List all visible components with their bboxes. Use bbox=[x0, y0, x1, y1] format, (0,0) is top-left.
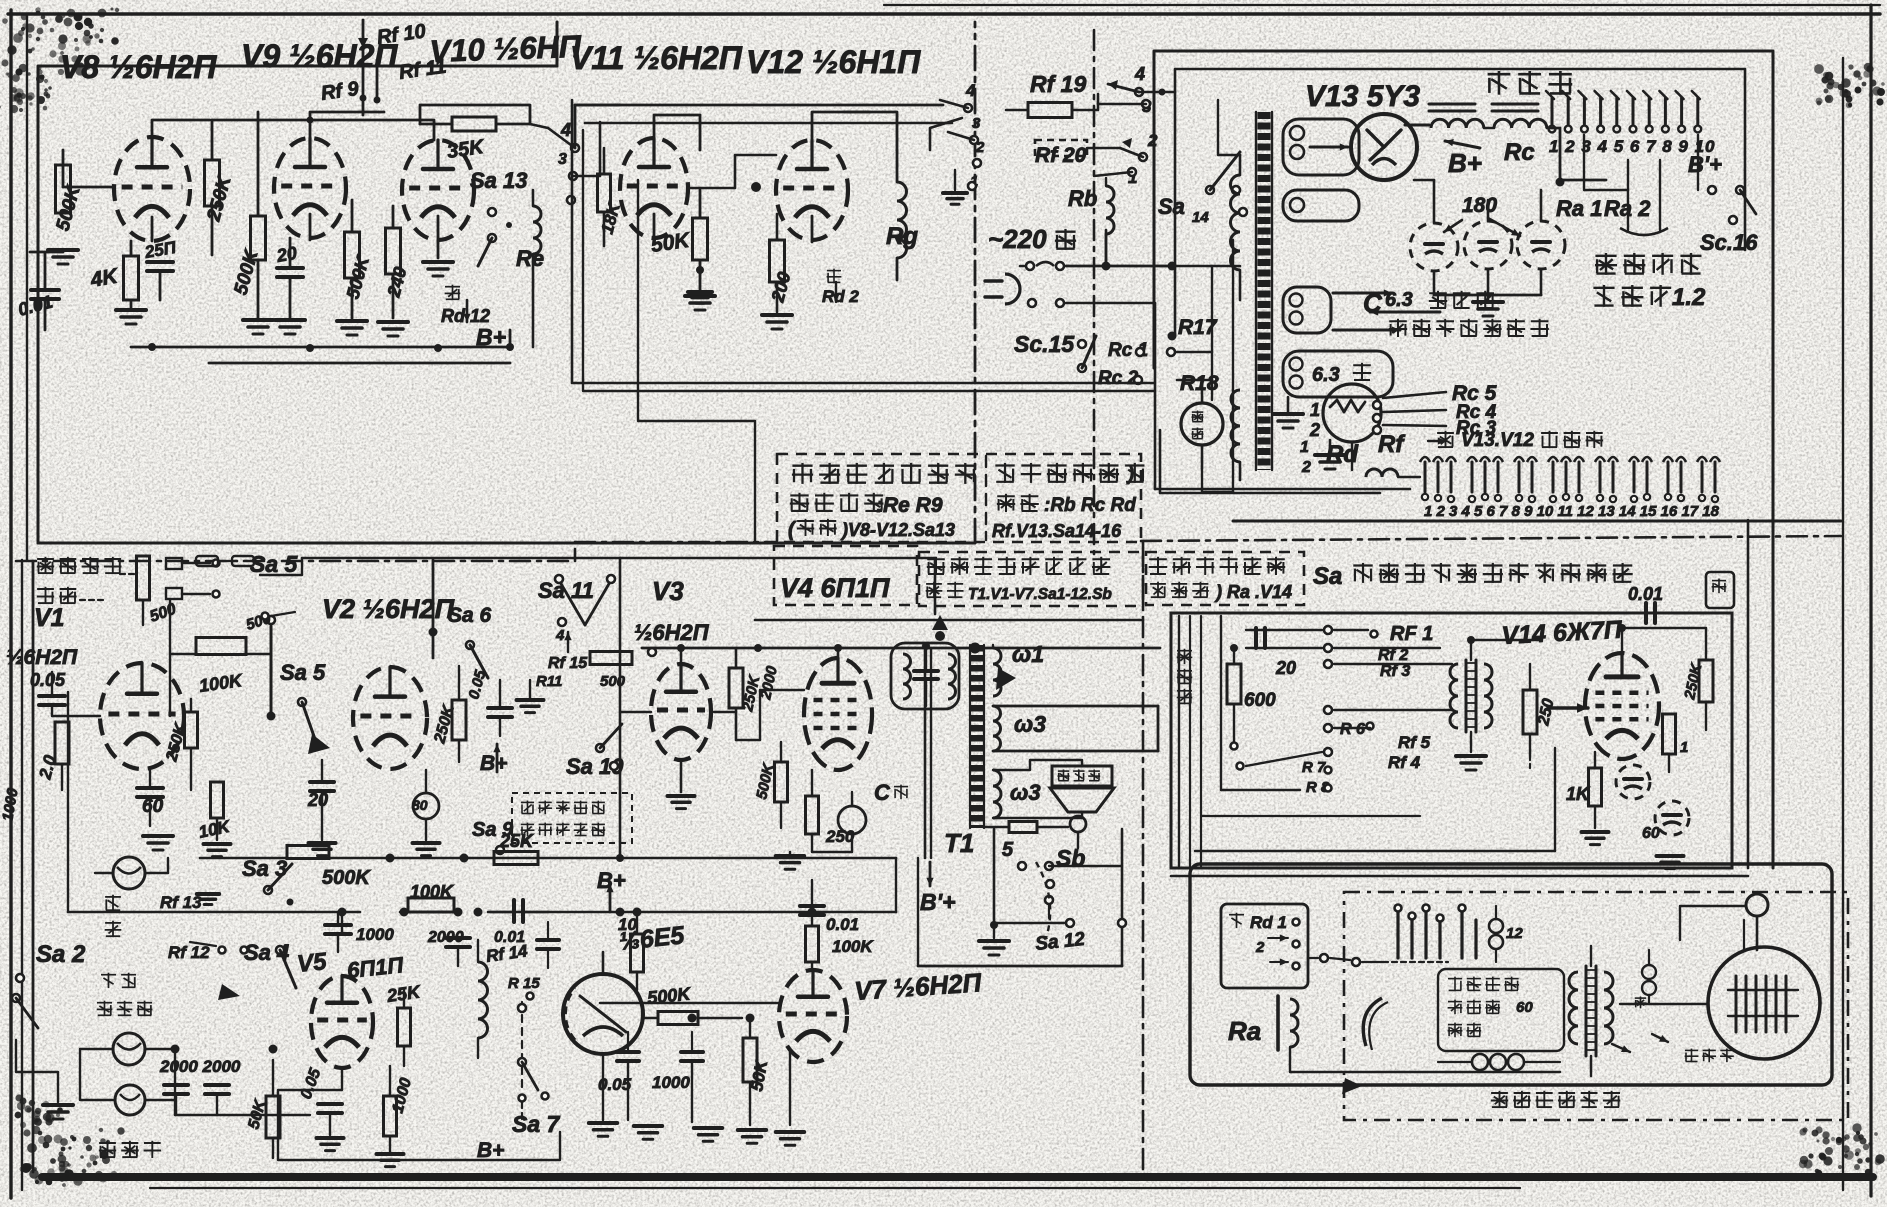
capacitor circle (V4) bbox=[838, 806, 866, 834]
ground (phone transformer) bbox=[1456, 754, 1486, 758]
connector plug pair bbox=[196, 556, 218, 566]
wire input cap bbox=[44, 252, 47, 290]
tube V1 bbox=[100, 663, 184, 769]
ground (V8 cathode) bbox=[130, 300, 133, 308]
ground (500K V9) bbox=[243, 318, 273, 322]
label 区)内有Ra V14 bbox=[1150, 583, 1166, 585]
wire phone mid rail bbox=[1201, 815, 1420, 817]
svg-text:Rd 1: Rd 1 bbox=[1250, 913, 1287, 932]
corner blob top-left bbox=[67, 9, 76, 18]
motor circle 马达 bbox=[1181, 403, 1223, 445]
resistor Rf10 leads bbox=[362, 50, 365, 115]
tube V6 (6E5 eye) bbox=[563, 974, 643, 1054]
capacitor 0.01 (bus) bbox=[512, 900, 516, 922]
ground (V10 cathode) bbox=[437, 240, 440, 258]
svg-text:Rf 4: Rf 4 bbox=[1388, 753, 1421, 772]
svg-text:80: 80 bbox=[412, 797, 428, 813]
capacitor 20 (V9 cathode) bbox=[277, 266, 303, 270]
electrolytic capacitor 1 bbox=[1410, 223, 1458, 271]
receiver resistor bbox=[1648, 995, 1650, 1004]
power transformer primary coil bbox=[1231, 175, 1241, 270]
wire V4 plate bbox=[837, 648, 840, 658]
wire V8 plate top bbox=[152, 120, 210, 137]
wire 220 to transformer bbox=[1105, 230, 1108, 266]
svg-text:) Ra .V14: ) Ra .V14 bbox=[1214, 582, 1292, 602]
corner blob top-right bbox=[1858, 76, 1862, 80]
svg-text:1.2: 1.2 bbox=[1672, 284, 1706, 311]
tube V7 bbox=[779, 970, 847, 1062]
ground (V1 cathode) bbox=[143, 834, 173, 838]
svg-text:1: 1 bbox=[1310, 400, 1320, 420]
svg-text:2: 2 bbox=[1309, 420, 1320, 440]
frame telephone amp box bbox=[1171, 613, 1732, 868]
wire bus y105 bbox=[575, 104, 943, 107]
resistor 240 (V10 cathode) bbox=[386, 228, 401, 274]
resistor 500K (V3) bbox=[775, 762, 788, 802]
wires Rc right bbox=[1177, 351, 1212, 354]
resistor 500K (V6) bbox=[658, 1012, 698, 1025]
label 部份内有:ReR9 bbox=[790, 494, 808, 496]
svg-text:V12 ½6Н1П: V12 ½6Н1П bbox=[746, 44, 921, 80]
ground (V3 cathode) bbox=[680, 760, 683, 792]
label 1000 2000 caps (V5 row) bbox=[537, 938, 559, 942]
wire long y383 bbox=[572, 100, 996, 383]
wire transformer top to frame bbox=[1264, 90, 1300, 112]
ground (20 cap) bbox=[275, 318, 305, 322]
svg-text:1K: 1K bbox=[1566, 784, 1591, 804]
wire pins to Ra1Ra2 bbox=[1584, 135, 1628, 190]
svg-text:B+: B+ bbox=[480, 752, 507, 775]
svg-text:1000: 1000 bbox=[652, 1073, 690, 1092]
svg-text:Rf 3: Rf 3 bbox=[1380, 663, 1410, 680]
resistor 1000 (V5) bbox=[384, 1096, 397, 1136]
svg-text:R 15: R 15 bbox=[508, 975, 540, 992]
annotation box auto-switch (dashed) bbox=[777, 454, 1141, 542]
annotation box 手柄按下 bbox=[1438, 969, 1564, 1051]
resistor 500K (V10 grid) bbox=[345, 232, 360, 278]
terminal pin row 1-10 bbox=[1551, 98, 1554, 124]
svg-text:): ) bbox=[1126, 464, 1134, 484]
brace under Ra bbox=[1620, 228, 1668, 235]
wire vertical x68 bbox=[52, 648, 68, 912]
tube V4 (pentode) bbox=[804, 658, 872, 770]
svg-text:V4 6П1П: V4 6П1П bbox=[780, 573, 890, 603]
svg-text:Sa 2: Sa 2 bbox=[36, 941, 86, 968]
wire T1 bottom to right bbox=[917, 858, 919, 966]
terminal circles (phone input) bbox=[1324, 626, 1332, 634]
svg-text:Rc: Rc bbox=[1504, 139, 1535, 166]
svg-text:Rf 2: Rf 2 bbox=[1378, 647, 1408, 664]
heater winding 2 bbox=[1283, 351, 1393, 397]
svg-text:½6Н2П: ½6Н2П bbox=[6, 646, 78, 669]
electrolytic (V14 screen) bbox=[1655, 801, 1689, 835]
wire power left vertical bbox=[1232, 240, 1234, 492]
svg-text:Sa 6: Sa 6 bbox=[448, 604, 492, 627]
wire long y391 bbox=[583, 130, 996, 391]
svg-text:)V8-V12.Sa13: )V8-V12.Sa13 bbox=[840, 520, 955, 540]
junction dot 500K rail bbox=[460, 854, 469, 863]
resistor 50K (V7) bbox=[743, 1038, 757, 1082]
jack symbols bbox=[166, 558, 182, 569]
ground (V14 screen) bbox=[1657, 854, 1684, 858]
wire choke to Rc bbox=[1547, 128, 1560, 180]
ground (V4) bbox=[776, 854, 804, 858]
label 至Rd2 (V12) bbox=[827, 270, 841, 272]
pickup head 3 bbox=[115, 1085, 145, 1115]
svg-text:12: 12 bbox=[1506, 925, 1523, 942]
phone transformer core bbox=[1465, 660, 1468, 732]
handset big circle bbox=[1708, 947, 1820, 1059]
tube V14 (pentode) bbox=[1585, 653, 1659, 759]
svg-text:Rf 13: Rf 13 bbox=[160, 893, 202, 912]
connector comb bottom bbox=[1424, 462, 1427, 492]
coil (Sb) bbox=[1070, 816, 1086, 832]
svg-text:Rf 5: Rf 5 bbox=[1398, 733, 1431, 752]
power transformer core bbox=[1258, 112, 1271, 470]
electrolytic capacitor 2 bbox=[1464, 221, 1512, 269]
wires Rd to Rc labels bbox=[1383, 392, 1446, 398]
resistor 1K (V14 cathode) bbox=[1589, 768, 1602, 806]
svg-text:2: 2 bbox=[1301, 459, 1311, 476]
svg-text:B+: B+ bbox=[477, 1139, 504, 1162]
resistor small (Sb) bbox=[1009, 822, 1037, 833]
svg-text:R18: R18 bbox=[1180, 372, 1219, 395]
resistor screen (V14) bbox=[1663, 714, 1676, 754]
svg-text:60: 60 bbox=[1642, 825, 1660, 842]
resistor 100K (V7) bbox=[806, 926, 819, 962]
svg-text:R 7: R 7 bbox=[1302, 759, 1326, 776]
wire input box bbox=[260, 558, 302, 575]
coil below 手柄 box bbox=[1472, 1054, 1488, 1070]
electrolytic (V14 cathode) bbox=[1616, 765, 1650, 799]
wire switch bank to V11 bbox=[575, 105, 620, 148]
capacitor 0.01 (V7 grid) bbox=[800, 904, 824, 908]
wire bus y363 bbox=[209, 362, 510, 365]
divider chain line horizontal left bbox=[16, 560, 575, 563]
svg-text:600: 600 bbox=[1244, 690, 1276, 711]
rheostat Rd circle bbox=[1323, 384, 1381, 442]
label 手柄按下 bbox=[1448, 978, 1462, 980]
svg-text:RF 1: RF 1 bbox=[1390, 623, 1433, 645]
svg-text:180: 180 bbox=[1462, 194, 1497, 217]
svg-text:Rf: Rf bbox=[1378, 431, 1405, 458]
ground (V8 grid) bbox=[48, 248, 78, 252]
resistor 500K (bus) bbox=[287, 846, 329, 859]
wire V5 bottom frame bbox=[278, 1132, 560, 1160]
wire x896 vertical bbox=[895, 858, 897, 912]
EQ coil right bbox=[948, 654, 956, 699]
junction dots (bus) bbox=[148, 343, 156, 351]
wire vertical x433 bbox=[432, 560, 435, 658]
capacitor 1000 (bus) bbox=[325, 923, 351, 927]
svg-text:Ra 1: Ra 1 bbox=[1556, 196, 1602, 221]
wire V6 V7 bottom bbox=[602, 1054, 604, 1120]
label 给录音部份灯丝 bbox=[1389, 320, 1407, 322]
wire V5 plate up bbox=[330, 932, 342, 976]
resistor 200 (V12 cathode) bbox=[770, 240, 785, 282]
long wire x620 drop bbox=[619, 558, 622, 858]
resistor 500K (V8 grid) bbox=[56, 165, 71, 213]
EQ coil left bbox=[903, 654, 911, 699]
ground (V2 plate area) bbox=[517, 698, 544, 702]
svg-text:20: 20 bbox=[274, 243, 298, 266]
phone transformer left coil bbox=[1450, 664, 1458, 728]
wire V10 plate frame bbox=[420, 105, 530, 124]
wires V14 top bbox=[1622, 628, 1706, 653]
resistor 4K (V8 cathode) bbox=[130, 241, 133, 256]
EQ capacitor bbox=[914, 669, 938, 673]
long wire y620 bbox=[755, 619, 1141, 622]
coil Rf small bbox=[1366, 469, 1398, 477]
coil Rf14 bbox=[478, 962, 488, 1038]
coil Ra bbox=[1276, 996, 1280, 1050]
wire bus y858 right bbox=[620, 857, 896, 860]
svg-text:Sc.16: Sc.16 bbox=[1700, 230, 1758, 255]
wire T1 B rail bbox=[924, 648, 927, 858]
svg-text:1: 1 bbox=[1680, 739, 1688, 756]
svg-text:V5: V5 bbox=[296, 948, 329, 978]
divider dashed in handset box bbox=[1344, 892, 1848, 1120]
border frame left bbox=[9, 10, 12, 1198]
ground (200 V12) bbox=[762, 313, 792, 317]
capacitor 25 (V8 cathode) bbox=[147, 260, 173, 264]
resistor 250K (V9 grid leak) bbox=[205, 160, 220, 206]
switch Sa5 wiper bbox=[267, 616, 275, 624]
svg-text:250: 250 bbox=[825, 827, 855, 846]
capacitor 0.05 (V1 grid) bbox=[39, 694, 65, 698]
phone transformer right coil bbox=[1484, 664, 1492, 728]
annotation box V4 (dashed) bbox=[774, 546, 917, 605]
resistor 35K (V10 plate) bbox=[452, 117, 496, 131]
svg-text:3: 3 bbox=[558, 151, 567, 168]
T1 winding w3 low bbox=[993, 770, 1001, 818]
svg-text:V13.V12: V13.V12 bbox=[1461, 430, 1534, 451]
wires phone left verticals bbox=[1178, 616, 1180, 866]
svg-text:R17: R17 bbox=[1178, 316, 1218, 339]
handset transformer core bbox=[1585, 966, 1588, 1056]
ground (heater) bbox=[1287, 397, 1290, 412]
wire V12 plate bbox=[812, 112, 870, 140]
svg-text:500: 500 bbox=[600, 673, 626, 690]
tube V2 bbox=[353, 667, 427, 769]
resistor input divider bbox=[137, 556, 150, 600]
svg-text:Rf.V13.Sa14-16: Rf.V13.Sa14-16 bbox=[992, 521, 1122, 541]
junction dots right bbox=[1467, 636, 1475, 644]
capacitor 0.05 (V2) bbox=[488, 706, 512, 710]
wire left edge bottom section bbox=[32, 561, 35, 1172]
relay coil Re bbox=[533, 206, 541, 254]
label 内簧片1.2 bbox=[1593, 287, 1614, 289]
svg-text:V10 ½6НП: V10 ½6НП bbox=[429, 29, 582, 69]
wire plate bus to T1 bbox=[642, 647, 1160, 650]
handset transformer leads bbox=[1590, 946, 1592, 966]
border frame right bbox=[1869, 5, 1872, 1196]
choke coil A bbox=[1429, 103, 1475, 106]
svg-text:2: 2 bbox=[1255, 939, 1265, 956]
resistor 250K (V2 plate) bbox=[452, 700, 466, 740]
wire bus y348 bbox=[131, 346, 510, 349]
wire step y421 bbox=[638, 180, 755, 543]
resistor 600 (phone) bbox=[1227, 664, 1241, 704]
svg-text:C: C bbox=[874, 780, 891, 805]
ground (T1) bbox=[993, 829, 996, 925]
svg-text:Sa 13: Sa 13 bbox=[470, 168, 528, 193]
frame recording-playback section (top-left) bbox=[38, 66, 557, 543]
capacitor 1000 (V7 area) bbox=[681, 1050, 703, 1054]
resistor 18K (V11 grid) bbox=[598, 174, 611, 212]
svg-text:B'+: B'+ bbox=[1688, 152, 1722, 177]
arrow to V14 grid bbox=[1548, 706, 1588, 709]
svg-text:ω3: ω3 bbox=[1010, 780, 1041, 805]
label 扼流器 bbox=[1488, 73, 1511, 76]
ground (heads) bbox=[57, 1085, 59, 1102]
wire motor to bus bbox=[1202, 468, 1233, 492]
divider chain line vertical x1094 bbox=[1093, 30, 1096, 554]
tube V5 bbox=[311, 976, 373, 1068]
label 电话机部份(四 bbox=[1149, 558, 1167, 560]
border frame bottom bbox=[42, 1173, 1873, 1181]
capacitor 2000 b bbox=[205, 1083, 229, 1087]
svg-text:500K: 500K bbox=[322, 867, 371, 889]
resistor 250 (V4 cathode) bbox=[806, 796, 819, 834]
svg-text:60: 60 bbox=[1516, 999, 1533, 1016]
corner blob bottom-right bbox=[1853, 1134, 1861, 1142]
junction arrows (wire y648) bbox=[932, 615, 948, 630]
wire V7 cathode bbox=[789, 1050, 791, 1125]
divider chain line vertical x1143 bbox=[1142, 541, 1145, 1178]
resistor 100K (bus) bbox=[408, 898, 454, 912]
switch Sa7 bbox=[521, 1002, 523, 1088]
wire grid bus top bbox=[212, 120, 434, 140]
svg-text:60: 60 bbox=[142, 796, 164, 817]
capacitor 20 (phone) bbox=[1254, 628, 1258, 648]
svg-text:0.01: 0.01 bbox=[826, 915, 859, 934]
label 录放头 bbox=[97, 1002, 112, 1004]
lever arc (handset) bbox=[1363, 998, 1382, 1046]
wire bus y123 bbox=[585, 122, 952, 125]
wires head area bbox=[16, 1040, 58, 1085]
svg-text:Rg: Rg bbox=[886, 223, 918, 250]
wire V8 grid bbox=[63, 186, 114, 189]
wire V11 plate bbox=[654, 115, 700, 150]
wire bus y912 bbox=[68, 911, 360, 914]
svg-text:Rb: Rb bbox=[1068, 186, 1097, 211]
HV winding lower box bbox=[1283, 190, 1359, 221]
label 换音头 bbox=[99, 1142, 116, 1144]
T1 winding w1 bbox=[993, 648, 1001, 696]
svg-text:B'+: B'+ bbox=[920, 889, 956, 915]
svg-text:100K: 100K bbox=[410, 882, 455, 902]
svg-text:Sa 5: Sa 5 bbox=[250, 551, 299, 577]
svg-text:20: 20 bbox=[1275, 658, 1296, 678]
svg-text:4: 4 bbox=[965, 81, 976, 100]
svg-text:ω1: ω1 bbox=[1012, 641, 1044, 667]
svg-text:1 2 3 4 5 6 7 8 9 10 11 12: 1 2 3 4 5 6 7 8 9 10 11 12 13 14 15 16 1… bbox=[1424, 503, 1720, 520]
label 音头 bbox=[105, 896, 121, 898]
svg-text:2000: 2000 bbox=[427, 929, 464, 946]
cathode leads V8-V12 bbox=[151, 217, 154, 241]
capacitor 0.01 (input) bbox=[31, 288, 59, 292]
label 至Rd12 (V10) bbox=[445, 286, 460, 288]
electrolytic capacitor 3 bbox=[1517, 221, 1565, 269]
svg-text:1000: 1000 bbox=[356, 925, 394, 944]
svg-text:V2 ½6Н2П: V2 ½6Н2П bbox=[322, 594, 455, 624]
tube V12 bbox=[776, 140, 848, 240]
svg-text:R 6: R 6 bbox=[1340, 721, 1365, 738]
ground (500K V10) bbox=[337, 319, 367, 323]
junction dots bottom-left buses bbox=[338, 908, 347, 917]
wire phone box bottom rail bbox=[1195, 850, 1555, 852]
svg-text:V9 ½6Н2П: V9 ½6Н2П bbox=[241, 38, 398, 74]
svg-text:V11 ½6Н2П: V11 ½6Н2П bbox=[570, 40, 743, 76]
svg-text:10: 10 bbox=[618, 915, 637, 934]
capacitor circle (V2 cathode) bbox=[413, 793, 439, 819]
label 电源部份(三区) bbox=[995, 464, 1014, 466]
tube V9 bbox=[274, 138, 346, 238]
resistor Rf19 bbox=[1028, 103, 1072, 118]
capacitor 0.05 (V7 area) bbox=[617, 1050, 639, 1054]
receiver coil (right) bbox=[1642, 965, 1656, 979]
wire V13 plate to choke bbox=[1359, 146, 1364, 148]
relay contact stack bbox=[1396, 912, 1399, 958]
svg-text:Rf 19: Rf 19 bbox=[1030, 71, 1086, 97]
speaker 喇叭 bbox=[1052, 766, 1112, 786]
handset transformer coils bbox=[1569, 972, 1578, 1044]
transformer T1 core bbox=[971, 645, 983, 828]
svg-text:Rc 2: Rc 2 bbox=[1098, 368, 1139, 389]
capacitor 2000 a bbox=[164, 1083, 188, 1087]
wire V9 plate bbox=[310, 112, 384, 138]
HV winding box bbox=[1283, 119, 1359, 175]
wire V14 plate to cap bbox=[1729, 613, 1731, 660]
svg-text:1: 1 bbox=[1300, 439, 1309, 456]
resistor 100K (V1 plate) bbox=[196, 638, 246, 655]
border frame top bbox=[8, 12, 1880, 15]
ground (50K V11) bbox=[685, 294, 715, 298]
divider chain line horizontal right bbox=[1141, 536, 1841, 541]
label 录音电路部份(一区) bbox=[927, 558, 945, 560]
resistor 500K (V9) bbox=[251, 216, 266, 260]
ground row (V6V7) bbox=[634, 1124, 662, 1128]
svg-text:4: 4 bbox=[555, 627, 565, 644]
tube V10 bbox=[402, 140, 474, 240]
wire comb feed bbox=[1351, 442, 1353, 470]
resistor 50K (V11) bbox=[693, 218, 708, 260]
svg-text:Sa 7: Sa 7 bbox=[512, 1111, 561, 1137]
label 喇叭接口 bbox=[37, 558, 54, 560]
svg-text:14: 14 bbox=[1192, 209, 1209, 226]
pickup head 1 (音头) bbox=[113, 857, 145, 889]
capacitor 20 (V2) bbox=[310, 780, 334, 784]
svg-text:Rf 15: Rf 15 bbox=[548, 655, 588, 672]
label 至电话机 bbox=[1595, 255, 1616, 257]
coil Rg bbox=[896, 150, 899, 182]
wire Rg frame bbox=[870, 112, 897, 150]
svg-text:2: 2 bbox=[1147, 131, 1158, 150]
tube V11 bbox=[620, 138, 688, 238]
heater winding arrows 1 bbox=[1283, 287, 1331, 333]
svg-text:6.3: 6.3 bbox=[1385, 289, 1413, 311]
choke coil B bbox=[1492, 103, 1538, 106]
wire electrolytic bottoms bbox=[1434, 294, 1541, 297]
label 话筒 bbox=[37, 588, 54, 590]
label 自动转换及关机 bbox=[792, 465, 812, 467]
resistor 250K (V3 plate) bbox=[729, 668, 743, 708]
rectifier tube V13 bbox=[1351, 114, 1417, 180]
wire grid V3 long bbox=[620, 711, 651, 713]
svg-text::Re R9: :Re R9 bbox=[876, 494, 943, 517]
resistor grid (phone) bbox=[1523, 690, 1537, 734]
